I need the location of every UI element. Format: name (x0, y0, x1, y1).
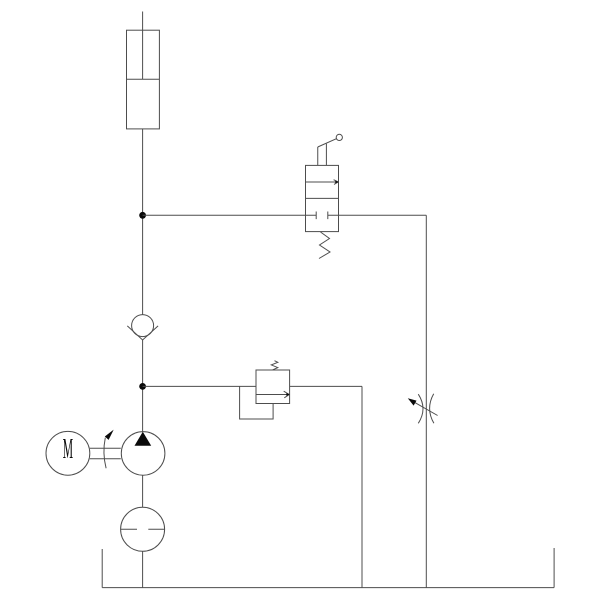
pump P1 flow triangle (135, 432, 152, 446)
valve V1 flow arrow (top position) (306, 180, 339, 185)
wire right riser to tank (425, 215, 427, 587)
relief valve RV1 flow arrow (256, 391, 290, 398)
valve V1 return spring (319, 232, 330, 259)
wire junction A to check valve (142, 215, 144, 314)
cooler HX1 inner lines (121, 528, 165, 530)
wire check valve to junction B (142, 340, 144, 386)
cylinder rod (142, 12, 144, 80)
check valve CV1 seat (127, 326, 158, 340)
wire pump P1 to cooler (142, 475, 144, 507)
wire valve V1 to right riser (339, 214, 427, 216)
cooler HX1 circle (121, 507, 165, 551)
tank T1 (102, 548, 554, 588)
throttle valve F1 arcs (418, 394, 434, 424)
shaft rotation arrow (104, 430, 114, 469)
cylinder piston (127, 78, 160, 80)
wire relief valve RV1 to outlet riser (290, 385, 362, 387)
valve V1 lever actuator (318, 134, 343, 165)
relief valve RV1 pilot line (240, 386, 274, 419)
motor M1 circle (46, 431, 90, 475)
relief valve RV1 spring (271, 361, 278, 370)
check valve CV1 ball (132, 315, 154, 337)
svg-text:M: M (63, 432, 73, 465)
wire junction A to valve V1 (143, 214, 306, 216)
pump P1 circle (121, 432, 165, 476)
wire relief outlet riser to tank (361, 386, 363, 587)
motor shaft coupling (90, 448, 121, 459)
valve V1 body (2/2 directional valve) (306, 165, 339, 231)
valve V1 blocked ports (bottom position) (306, 212, 339, 220)
wire cylinder to junction A (142, 129, 144, 215)
throttle valve F1 adjustment arrow (408, 398, 438, 415)
node B junction dot (139, 383, 146, 390)
node A junction dot (139, 212, 146, 219)
wire junction B to relief valve RV1 (143, 385, 256, 387)
wire junction B to pump (142, 386, 144, 431)
wire cooler to tank (142, 551, 144, 587)
relief valve RV1 body (256, 370, 290, 404)
cylinder body (127, 30, 160, 129)
